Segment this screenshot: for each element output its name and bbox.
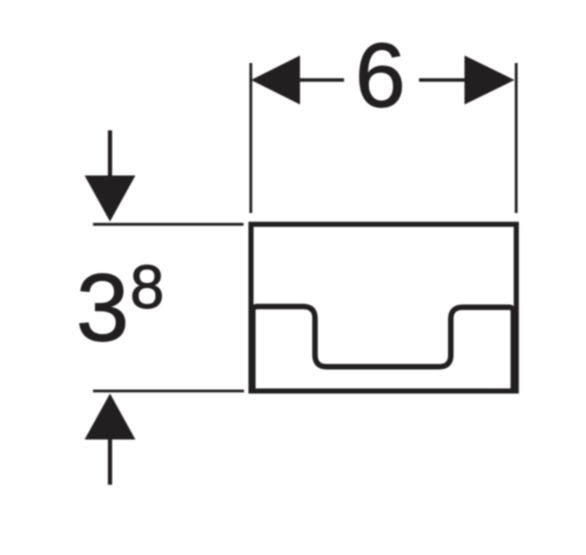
svg-text:3: 3	[76, 256, 129, 362]
svg-text:8: 8	[130, 253, 164, 322]
svg-text:6: 6	[355, 26, 406, 127]
